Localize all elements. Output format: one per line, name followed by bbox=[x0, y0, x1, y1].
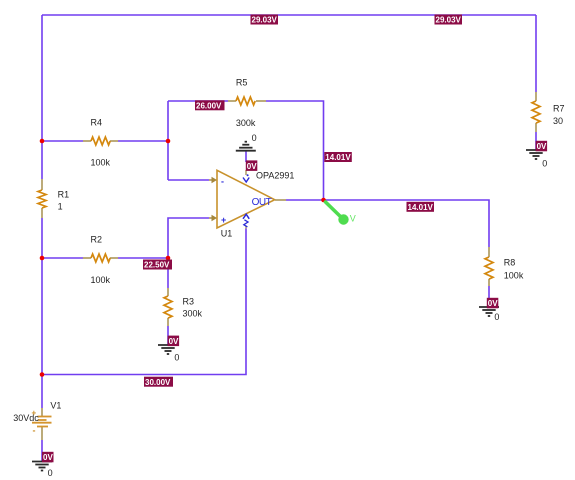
wire R4 left bbox=[42, 140, 83, 142]
wire top rail bbox=[42, 14, 536, 16]
voltage label 14.01V upper bbox=[324, 152, 352, 162]
svg-text:0V: 0V bbox=[169, 337, 179, 346]
svg-text:R2: R2 bbox=[91, 234, 103, 244]
svg-text:0: 0 bbox=[252, 133, 257, 143]
svg-text:1: 1 bbox=[58, 201, 63, 211]
svg-text:100k: 100k bbox=[504, 270, 524, 280]
probe marker V bbox=[326, 202, 356, 225]
resistor R7 bbox=[532, 92, 540, 132]
svg-text:0V: 0V bbox=[537, 142, 547, 151]
svg-text:30.00V: 30.00V bbox=[145, 378, 171, 387]
svg-text:30: 30 bbox=[553, 116, 563, 126]
wire right drop to R7 bbox=[535, 15, 537, 92]
svg-text:14.01V: 14.01V bbox=[325, 153, 351, 162]
svg-text:0V: 0V bbox=[247, 162, 257, 171]
wire V1 top bbox=[41, 375, 43, 409]
svg-text:-: - bbox=[33, 426, 36, 436]
svg-text:29.03V: 29.03V bbox=[436, 16, 462, 25]
svg-text:U1: U1 bbox=[221, 229, 233, 239]
svg-text:29.03V: 29.03V bbox=[252, 16, 278, 25]
wire R2 right bbox=[118, 257, 168, 259]
voltage label 0V at R7 ground bbox=[536, 141, 548, 152]
resistor R8 bbox=[485, 247, 493, 286]
wire R7 to ground bbox=[535, 132, 537, 150]
svg-text:0: 0 bbox=[542, 159, 547, 169]
wire left rail lower bbox=[41, 218, 43, 375]
ground 0 above op-amp bbox=[236, 142, 256, 151]
voltage label 0V at V1 ground bbox=[42, 452, 54, 463]
voltage label 0V at R3 ground bbox=[168, 336, 180, 347]
wire R2 left bbox=[42, 257, 83, 259]
junction dot R4 right bbox=[166, 139, 171, 144]
svg-text:30Vdc: 30Vdc bbox=[13, 413, 39, 423]
voltage label 14.01V right bbox=[407, 202, 435, 212]
svg-text:R5: R5 bbox=[236, 77, 248, 87]
resistor R3 bbox=[164, 288, 172, 326]
svg-text:22.50V: 22.50V bbox=[144, 261, 170, 270]
svg-text:100k: 100k bbox=[91, 275, 111, 285]
wire R8 to ground bbox=[488, 286, 490, 307]
svg-text:+: + bbox=[221, 215, 226, 225]
wire output net bbox=[286, 200, 489, 247]
op-amp U1 bbox=[209, 170, 294, 239]
voltage label 0V at R8 ground bbox=[487, 298, 499, 309]
svg-text:R3: R3 bbox=[183, 297, 195, 307]
wire to R5 left bbox=[168, 100, 228, 102]
ground 0 under R7 bbox=[526, 150, 546, 159]
wire R4 right bbox=[118, 140, 168, 142]
svg-text:R4: R4 bbox=[91, 117, 103, 127]
svg-text:300k: 300k bbox=[236, 118, 256, 128]
svg-text:0V: 0V bbox=[43, 453, 53, 462]
svg-text:OUT: OUT bbox=[252, 197, 272, 208]
svg-text:0V: 0V bbox=[488, 299, 498, 308]
junction dot output bbox=[321, 198, 326, 203]
svg-text:14.01V: 14.01V bbox=[408, 203, 434, 212]
wire inverting input bbox=[168, 179, 209, 181]
voltage label 29.03V left bbox=[251, 15, 279, 25]
resistor R1 bbox=[38, 179, 46, 218]
svg-text:0: 0 bbox=[174, 353, 179, 363]
svg-text:-: - bbox=[221, 177, 224, 187]
junction dot R2 right bbox=[166, 256, 171, 261]
voltage label 30.00V bbox=[144, 377, 173, 387]
svg-text:V: V bbox=[350, 214, 356, 224]
ground 0 under R3 bbox=[158, 345, 178, 354]
wire left rail upper bbox=[41, 15, 43, 179]
svg-text:100k: 100k bbox=[91, 157, 111, 167]
svg-text:OPA2991: OPA2991 bbox=[256, 171, 294, 181]
svg-text:0: 0 bbox=[48, 468, 53, 478]
ground 0 under V1 bbox=[32, 462, 52, 471]
resistor R5 bbox=[228, 97, 266, 105]
resistor R2 bbox=[83, 254, 118, 262]
voltage label 22.50V bbox=[143, 260, 172, 270]
voltage label 0V at op-amp V+ bbox=[246, 160, 257, 171]
ground 0 under R8 bbox=[479, 307, 499, 316]
wire opamp V+ stub bbox=[245, 151, 247, 162]
svg-text:R1: R1 bbox=[58, 189, 70, 199]
resistor R4 bbox=[83, 137, 118, 145]
svg-text:R7: R7 bbox=[553, 104, 565, 114]
junction dot R2 left bbox=[40, 256, 45, 261]
wire node A vertical bbox=[167, 101, 169, 180]
wire R5 right to output column bbox=[266, 101, 324, 200]
voltage source V1 bbox=[13, 401, 61, 440]
svg-text:26.00V: 26.00V bbox=[196, 102, 222, 111]
svg-text:V1: V1 bbox=[50, 401, 61, 411]
voltage label 26.00V bbox=[195, 100, 225, 110]
svg-text:300k: 300k bbox=[183, 309, 203, 319]
svg-text:0: 0 bbox=[494, 312, 499, 322]
wire V1 bottom to ground bbox=[41, 440, 43, 462]
voltage label 29.03V right bbox=[435, 15, 463, 25]
svg-text:R8: R8 bbox=[504, 258, 516, 268]
junction dot R4 left bbox=[40, 139, 45, 144]
wire R3 to ground bbox=[167, 326, 169, 345]
wire bottom rail to V- pin bbox=[42, 229, 246, 375]
junction dot V1 bbox=[40, 372, 45, 377]
wire noninverting input bbox=[168, 218, 209, 288]
